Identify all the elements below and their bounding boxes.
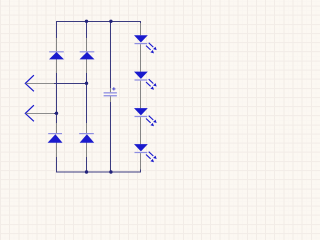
wire AC1 to right column	[54, 83, 87, 85]
junction bottom bus / right bridge	[85, 170, 88, 173]
wire top bus	[57, 21, 141, 23]
wire bottom bus	[57, 171, 141, 173]
wire middle capacitor column lower	[110, 102, 112, 173]
LED D5	[134, 23, 157, 72]
wire left bridge column lower	[56, 157, 58, 173]
junction top bus / right bridge	[85, 20, 88, 23]
LED D7	[134, 108, 157, 144]
junction bottom bus / capacitor	[109, 170, 112, 173]
diode D3	[48, 123, 63, 157]
wire right bridge column lower	[86, 157, 88, 173]
AC input arrow 2	[25, 105, 54, 121]
diode D2	[80, 38, 95, 73]
capacitor C1	[104, 87, 117, 102]
wire right bridge column upper	[86, 21, 88, 38]
junction AC2 / left bridge	[55, 112, 58, 115]
wire left column crossing patch	[56, 80, 58, 87]
wire left bridge column middle	[56, 73, 58, 123]
wire LED column bottom stub	[140, 170, 142, 173]
LED D6	[134, 72, 157, 109]
AC input arrow 1	[25, 75, 54, 91]
diode D4	[79, 123, 94, 157]
diode D1	[49, 38, 64, 73]
wire left bridge column upper	[56, 21, 58, 38]
wire right bridge column middle	[86, 73, 88, 123]
wire middle capacitor column upper	[110, 21, 112, 88]
wire AC2 to left column	[54, 113, 57, 115]
wire LED column top stub	[140, 21, 142, 23]
junction top bus / capacitor	[109, 20, 112, 23]
junction AC1 / right bridge	[85, 82, 88, 85]
LED D8	[134, 144, 157, 169]
